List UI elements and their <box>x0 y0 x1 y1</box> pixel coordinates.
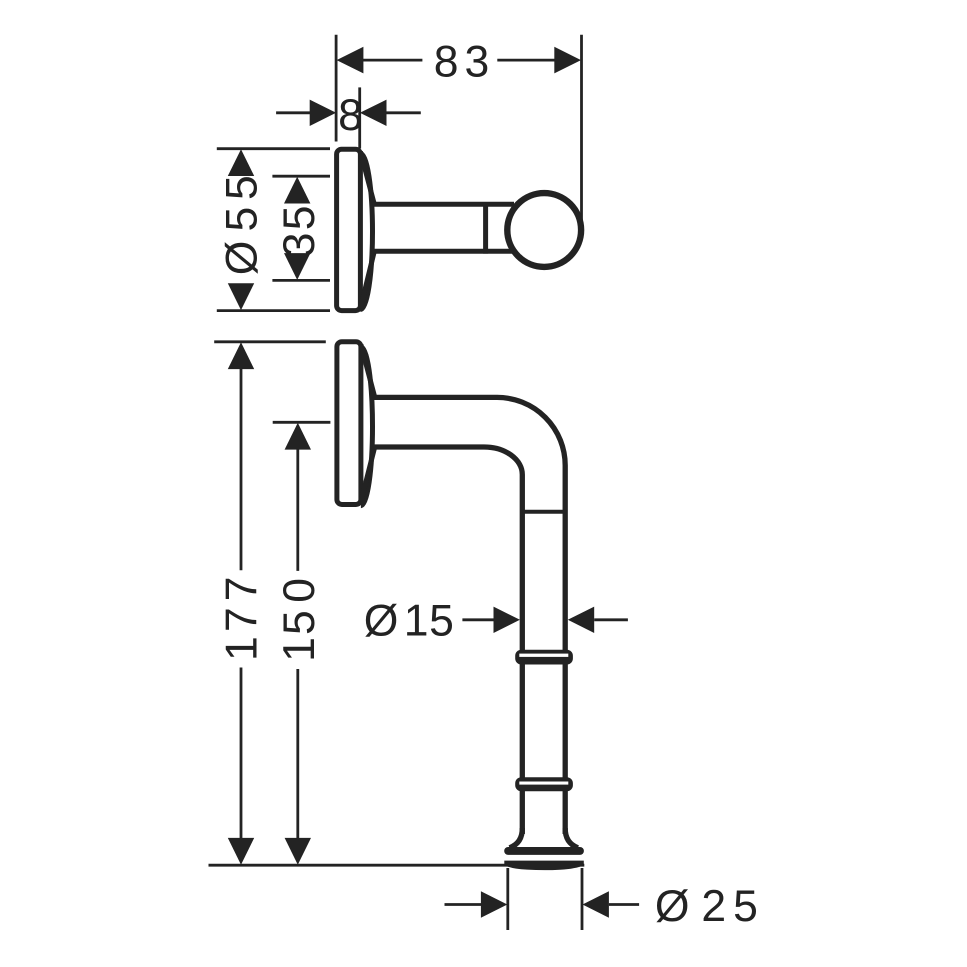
dim 150 arrow down <box>285 838 311 865</box>
collar ring A slot <box>519 654 568 657</box>
dim 35 arrow up <box>284 177 310 204</box>
collar ring B slot <box>519 782 568 785</box>
dim 150 line lower segment <box>296 669 299 841</box>
dim 150 line upper segment <box>296 448 299 571</box>
wall plate (top view) <box>337 149 361 310</box>
collar ring A <box>515 650 573 665</box>
dim 8 arrow left <box>310 100 336 126</box>
dim 35 arrow down <box>284 253 310 280</box>
bottom flare wall left <box>510 828 523 848</box>
floor line <box>209 864 585 867</box>
dim 177 arrow up <box>228 342 254 369</box>
dim 35 extension line top <box>272 175 330 178</box>
arm outer edge with bend <box>374 397 566 834</box>
dim 83 arrow left <box>337 47 364 74</box>
dim d25 tail right <box>609 903 639 906</box>
dim d55 arrow down <box>228 283 254 310</box>
dim d25 extension line right <box>581 868 584 930</box>
dim d25 extension line left <box>506 868 509 930</box>
dim 177 line upper segment <box>240 367 243 570</box>
dim 8 extension line <box>358 87 361 148</box>
bell foot slot <box>510 855 579 860</box>
svg-text:Ø25: Ø25 <box>655 882 758 931</box>
bell rim arc (top view) <box>361 154 373 310</box>
arm inner edge with bend <box>374 447 523 834</box>
dim d25 tail left <box>445 903 483 906</box>
dim 83 line left segment <box>362 59 422 62</box>
svg-text:Ø15: Ø15 <box>364 597 454 646</box>
dim 35 extension line bottom <box>272 279 330 282</box>
dim d15 arrow right <box>568 607 594 633</box>
pipe joint line <box>522 510 565 514</box>
dim 8 tail left <box>276 111 310 114</box>
dim 177 arrow down <box>228 838 254 865</box>
svg-text:150: 150 <box>275 578 324 662</box>
collar ring B <box>515 777 573 791</box>
bell foot top band <box>504 847 584 855</box>
dim 83 extension line right <box>580 35 583 226</box>
dim 150 extension line top <box>273 421 331 424</box>
flare silhouette lines (front view) <box>361 345 375 502</box>
dim d55 extension line top <box>217 147 330 150</box>
dim 177 line lower segment <box>240 668 243 842</box>
svg-text:177: 177 <box>217 577 266 662</box>
dim 83 arrow right <box>554 47 581 74</box>
dim d55 arrow up <box>228 149 254 176</box>
dim 177 extension line top <box>214 340 326 343</box>
stem (top view) <box>373 204 514 251</box>
dim d15 tail right <box>594 618 628 621</box>
bell foot bottom disc <box>504 861 584 871</box>
dim 8 arrow right <box>360 100 387 126</box>
dim d15 arrow left <box>494 607 520 633</box>
svg-text:Ø55: Ø55 <box>217 175 266 275</box>
dim d15 tail left <box>462 618 496 621</box>
stem joint line (top view) <box>483 202 488 254</box>
bottom flare wall right <box>565 828 578 848</box>
dim d25 arrow left <box>481 891 507 917</box>
dim 83 extension line left <box>335 35 338 142</box>
dim 83 line right segment <box>497 59 555 62</box>
dim d55 extension line bottom <box>217 309 330 312</box>
svg-text:8: 8 <box>338 91 363 140</box>
flare silhouette lines (top view) <box>360 152 374 309</box>
ball end cap (top view) <box>507 193 581 267</box>
dim d25 arrow right <box>583 891 609 917</box>
dim 150 arrow up <box>285 423 311 450</box>
bell rim arc (front view) <box>361 347 373 506</box>
wall plate (front view) <box>337 342 361 505</box>
dim 8 tail right <box>387 111 421 114</box>
